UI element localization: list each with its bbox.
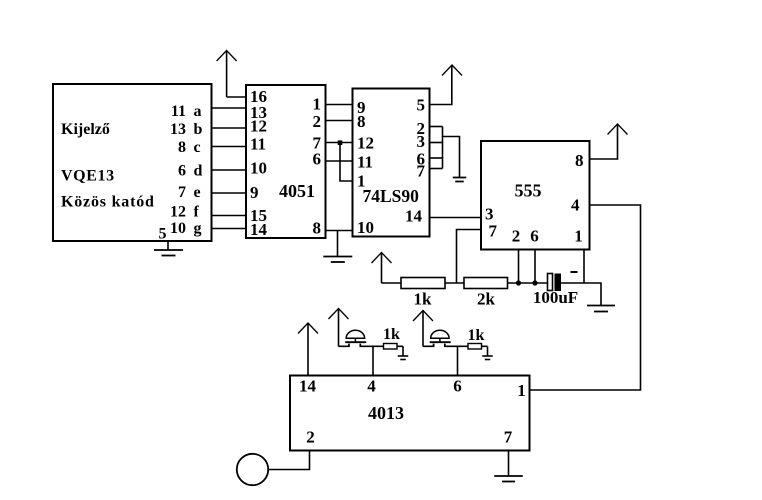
- pushbutton S1 contact bar: [345, 341, 366, 343]
- svg-text:74LS90: 74LS90: [363, 186, 420, 206]
- wire 74LS90 pin14 to 555 pin3: [430, 217, 482, 219]
- ground (R4): [482, 355, 493, 357]
- svg-text:1: 1: [574, 227, 583, 246]
- svg-text:14: 14: [405, 207, 423, 226]
- svg-text:2: 2: [306, 428, 315, 447]
- junction dot (4051 pin7 net): [338, 140, 343, 145]
- ground (74LS90 pins 2,3,6,7): [453, 177, 467, 179]
- wire 4051 pin8 to 74LS90 pin10: [326, 230, 353, 232]
- svg-text:4013: 4013: [368, 403, 404, 423]
- pushbutton S2 contact bar: [430, 341, 451, 343]
- wire segment g (display to 4051): [212, 228, 247, 230]
- svg-text:11: 11: [250, 135, 266, 154]
- svg-text:7: 7: [504, 428, 513, 447]
- svg-text:4: 4: [571, 196, 580, 215]
- svg-text:8: 8: [357, 112, 366, 131]
- svg-text:e: e: [194, 184, 201, 201]
- Vcc supply arrow (4051 pin 16): [217, 51, 237, 62]
- svg-text:c: c: [194, 139, 201, 156]
- svg-text:5: 5: [159, 226, 167, 243]
- wire segment a (display to 4051): [212, 107, 247, 109]
- svg-text:13: 13: [170, 121, 186, 138]
- wire R1 to R2: [445, 282, 464, 284]
- Vcc supply arrow (74LS90 pin 5): [442, 65, 462, 76]
- capacitor C1 100uF plus plate: [548, 274, 553, 291]
- wire segment b (display to 4051): [212, 127, 247, 129]
- wire segment d (display to 4051): [212, 169, 247, 171]
- svg-text:11: 11: [357, 153, 373, 172]
- IC 555 box: [481, 141, 590, 250]
- Vcc supply arrow (pushbutton S1): [329, 309, 349, 320]
- wire 555 pin1 down: [583, 250, 585, 284]
- svg-text:12: 12: [170, 204, 186, 221]
- Vcc supply arrow (pushbutton S2): [413, 311, 433, 322]
- wire 74LS90 pin2 stub: [430, 126, 443, 128]
- wire bracket joining pins 2,3,6,7: [442, 127, 444, 169]
- svg-text:5: 5: [417, 96, 426, 115]
- svg-text:12: 12: [357, 134, 374, 153]
- svg-text:9: 9: [250, 183, 259, 202]
- svg-text:12: 12: [250, 117, 267, 136]
- svg-text:6: 6: [313, 150, 322, 169]
- pushbutton S1 dome: [346, 330, 364, 338]
- svg-text:VQE13: VQE13: [61, 168, 115, 185]
- Vcc supply arrow (555 pin 8): [608, 124, 628, 135]
- svg-text:4: 4: [367, 377, 376, 396]
- wire segment f (display to 4051): [212, 215, 247, 217]
- svg-text:8: 8: [178, 139, 186, 156]
- wire 74LS90 pin7 stub: [430, 168, 443, 170]
- resistor R4 1k: [468, 344, 482, 350]
- junction dot (555 pin6): [532, 280, 537, 285]
- wire 4013 pin 4 up: [372, 346, 374, 375]
- ground (4013 pin 7): [508, 451, 510, 477]
- svg-text:2: 2: [512, 227, 521, 246]
- svg-text:8: 8: [575, 151, 584, 170]
- wire Vcc to S2 left contact: [423, 344, 434, 347]
- svg-text:14: 14: [299, 377, 317, 396]
- capacitor C1 minus sign: [571, 271, 578, 273]
- wire C1 to ground: [561, 283, 601, 305]
- svg-text:b: b: [194, 121, 203, 138]
- wire bracket to ground: [443, 137, 460, 178]
- resistor R3 1k: [384, 344, 398, 350]
- svg-text:g: g: [194, 220, 202, 237]
- svg-text:100uF: 100uF: [533, 288, 578, 307]
- wire Vcc to S1 left contact: [339, 344, 350, 347]
- wire 555 pin7 to RC rail: [457, 230, 482, 284]
- svg-text:d: d: [194, 163, 203, 180]
- svg-text:1k: 1k: [414, 290, 433, 309]
- svg-text:1: 1: [313, 95, 322, 114]
- svg-text:8: 8: [313, 219, 322, 238]
- svg-text:3: 3: [417, 132, 426, 151]
- ground (display pin 5): [167, 241, 169, 250]
- wire segment c (display to 4051): [212, 146, 247, 148]
- wire (Vcc to 4051 pin 16): [227, 96, 246, 98]
- svg-text:1k: 1k: [383, 326, 400, 343]
- resistor R1 1k: [401, 278, 445, 289]
- display module box (7-seg display VQE13): [53, 84, 212, 241]
- svg-text:14: 14: [250, 220, 268, 239]
- svg-text:6: 6: [530, 227, 539, 246]
- junction dot (555 pin2): [516, 280, 521, 285]
- svg-text:6: 6: [453, 377, 462, 396]
- svg-text:a: a: [194, 103, 202, 120]
- svg-text:1: 1: [517, 381, 526, 400]
- wire S2 right contact to R4/pin6: [445, 344, 488, 347]
- wire 555 pin6 down: [534, 250, 536, 284]
- svg-text:7: 7: [489, 222, 498, 241]
- svg-text:2: 2: [313, 112, 322, 131]
- Vcc supply arrow (RC rail): [372, 253, 392, 264]
- svg-text:555: 555: [515, 181, 542, 201]
- svg-text:6: 6: [178, 163, 186, 180]
- svg-text:Közös katód: Közös katód: [61, 194, 155, 211]
- sensor/button circle (4013 pin 2): [237, 454, 268, 485]
- IC 4013 box: [290, 376, 530, 451]
- svg-text:1: 1: [357, 172, 366, 191]
- wire 4051 pin7 to 74LS90 pin12: [326, 142, 353, 144]
- svg-text:Kijelző: Kijelző: [61, 121, 110, 138]
- wire Vcc to R1: [382, 282, 402, 284]
- resistor R2 2k: [464, 278, 508, 289]
- svg-text:1k: 1k: [468, 327, 485, 344]
- svg-text:2k: 2k: [477, 290, 496, 309]
- wire 4051 pin6 to 74LS90 pin11: [326, 160, 353, 162]
- svg-text:4051: 4051: [279, 181, 315, 201]
- svg-text:10: 10: [357, 218, 374, 237]
- wire branch to 74LS90 pin1: [340, 143, 353, 182]
- svg-text:f: f: [194, 204, 200, 221]
- svg-text:7: 7: [417, 162, 426, 181]
- wire 4013 pin 6 up: [457, 346, 459, 375]
- wire R4 to ground: [487, 346, 489, 356]
- capacitor C1 100uF minus plate: [555, 274, 562, 292]
- wire 555 pin8 to Vcc: [590, 124, 618, 159]
- ground (R3): [398, 355, 409, 357]
- ground (4051 pin8 / 74LS90 pin10 net): [337, 231, 339, 257]
- wire 4051 pin1 to 74LS90 pin9: [326, 104, 353, 106]
- wire R2 to C1: [508, 282, 548, 284]
- svg-text:10: 10: [250, 159, 267, 178]
- svg-text:7: 7: [178, 184, 186, 201]
- wire 74LS90 pin5 to Vcc: [430, 65, 452, 105]
- wire 555 pin4 to 4013 pin1: [530, 205, 641, 390]
- svg-text:11: 11: [171, 103, 186, 120]
- wire 555 pin2 down: [518, 250, 520, 284]
- wire R3 to ground: [402, 346, 404, 356]
- wire 4051 pin2 to 74LS90 pin8: [326, 120, 353, 122]
- IC 4051 box: [246, 85, 326, 238]
- wire 74LS90 pin3 stub: [430, 142, 443, 144]
- ground (RC rail / 555 pin1): [587, 305, 615, 307]
- Vcc supply arrow (4013 pin 14): [298, 323, 318, 334]
- wire circle to 4013 pin 2: [268, 451, 309, 470]
- pushbutton S2 dome: [431, 330, 449, 338]
- svg-text:10: 10: [170, 220, 186, 237]
- wire 74LS90 pin6 stub: [430, 157, 443, 159]
- IC 74LS90 box: [353, 89, 430, 237]
- wire segment e (display to 4051): [212, 192, 247, 194]
- wire S1 right contact to R3/pin4: [360, 344, 403, 347]
